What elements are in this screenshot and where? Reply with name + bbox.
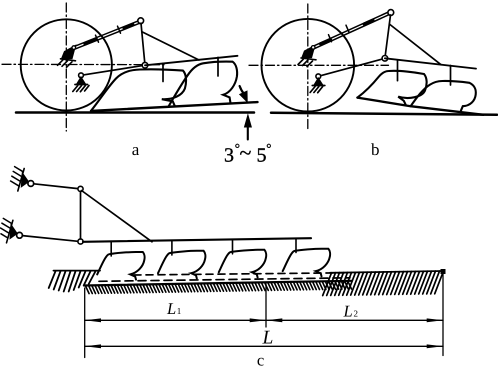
wheel A horizontal centerline — [2, 63, 164, 65]
plow bottom B2 — [411, 81, 476, 111]
svg-text:L: L — [262, 328, 274, 349]
buried outline dashes row 1 C — [134, 273, 345, 275]
top hitch joint A — [138, 18, 144, 24]
lower link C — [22, 236, 78, 242]
standard 1 B — [397, 60, 399, 81]
label L1 — [166, 299, 181, 318]
upper link fixed support A — [58, 46, 76, 68]
arrow L left — [85, 344, 101, 348]
svg-text:L: L — [166, 299, 176, 318]
soil surface line right C — [330, 271, 443, 273]
dimension extension line left — [84, 288, 86, 358]
upper fixed support C — [11, 167, 34, 191]
wheel B horizontal centerline — [249, 64, 389, 66]
mast link A — [141, 23, 145, 65]
lower link fixed pivot A — [73, 73, 89, 92]
angle arrow A — [240, 86, 247, 101]
plow bottom B1 — [357, 71, 426, 105]
brace A — [142, 32, 199, 60]
dimension line L1 L2 — [85, 319, 443, 321]
mast C — [80, 192, 82, 239]
pointer arrow to ground gap — [245, 115, 252, 140]
wheel B vertical centerline — [307, 4, 309, 131]
svg-text:L: L — [343, 302, 353, 321]
brace C — [82, 191, 153, 242]
arrow L2 right — [427, 318, 443, 322]
hitch lower joint B — [382, 56, 388, 62]
furrow bottom line C — [84, 281, 352, 286]
arrow L2 left — [266, 318, 282, 322]
standard C2 — [171, 240, 173, 255]
share tip line B — [357, 98, 483, 115]
share tip line A (3-5 deg slant) — [91, 102, 258, 111]
hitch lower joint A — [142, 62, 148, 68]
plow bottom C4 — [283, 249, 330, 277]
top hitch joint B — [388, 10, 394, 16]
soil hatch right block C — [323, 271, 444, 296]
svg-text:3: 3 — [224, 145, 234, 167]
svg-text:c: c — [257, 350, 264, 366]
standard C4 — [295, 238, 297, 252]
plow bottom C2 — [158, 251, 205, 279]
label L2 — [343, 302, 359, 321]
upper joint C — [78, 186, 83, 191]
plow beam A — [145, 56, 238, 66]
plow bottom A1 — [91, 69, 186, 110]
upper link B (double line with ticks) — [311, 11, 391, 49]
standard 2 B — [450, 66, 452, 86]
soil surface line left C — [54, 270, 101, 272]
lower link A — [81, 65, 145, 75]
ground line A — [16, 111, 254, 114]
dimension extension line right — [442, 272, 444, 356]
brace B — [389, 24, 441, 65]
upper link fixed support B — [298, 46, 316, 67]
lower fixed support C — [1, 218, 23, 242]
lower link fixed pivot B — [310, 74, 325, 93]
wheel B — [262, 19, 355, 112]
plow bottom A2 — [168, 62, 237, 107]
svg-text:a: a — [132, 140, 140, 159]
svg-text:°: ° — [266, 141, 271, 156]
standard C1 — [110, 241, 112, 256]
lower joint C — [78, 239, 83, 244]
ground line B — [271, 113, 497, 115]
arrow L1 right — [250, 318, 266, 322]
soil hatch left wedge C — [49, 271, 96, 291]
standard 1 A — [162, 63, 164, 81]
dimension line L — [85, 345, 443, 347]
standard C3 — [232, 239, 234, 253]
svg-text:5: 5 — [257, 145, 267, 167]
svg-text:~: ~ — [240, 140, 252, 165]
svg-text:2: 2 — [354, 309, 359, 319]
arrow L1 left — [85, 318, 101, 322]
furrow hatch band C — [86, 281, 352, 293]
dimension extension line middle — [265, 284, 267, 327]
upper link C — [34, 184, 78, 189]
buried outline dashes row 2 C — [99, 278, 350, 282]
lower link B — [318, 58, 385, 76]
wheel A vertical centerline — [65, 3, 67, 131]
upper link A (double line with adjustment ticks) — [72, 20, 141, 49]
plow beam B — [385, 58, 476, 68]
svg-text:1: 1 — [177, 306, 182, 316]
svg-text:b: b — [371, 140, 380, 159]
arrow L right — [427, 344, 443, 348]
plow bottom C1 — [97, 252, 144, 280]
plow bottom C3 — [219, 250, 266, 278]
mast link B — [385, 15, 391, 58]
wheel A — [21, 19, 112, 110]
soil corner dot C — [441, 269, 446, 274]
label 3~5 degrees — [224, 140, 272, 167]
standard 2 A — [217, 57, 219, 76]
frame C — [83, 238, 311, 242]
